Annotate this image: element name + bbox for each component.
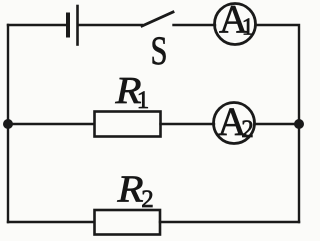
- wire A1 to top-right corner and right side down: [256, 25, 300, 222]
- wire middle row: left node to resistor R1: [8, 123, 94, 125]
- svg-text:R: R: [116, 169, 143, 211]
- svg-text:2: 2: [141, 186, 154, 213]
- wire R1 to ammeter A2: [161, 123, 215, 125]
- label A2 (ammeter A2): [218, 99, 254, 144]
- label R2 (resistor R2): [116, 169, 153, 214]
- wire battery to switch: [79, 24, 142, 26]
- node junction left: [3, 119, 13, 129]
- battery B (cell): [68, 6, 78, 45]
- resistor R1 box: [95, 112, 161, 137]
- resistor R2 box: [95, 210, 161, 235]
- svg-text:1: 1: [137, 87, 150, 114]
- ammeter A2 circle: [214, 103, 255, 144]
- node junction right: [294, 119, 304, 129]
- svg-text:1: 1: [242, 15, 254, 41]
- ammeter A1 circle: [215, 4, 256, 45]
- svg-text:S: S: [151, 28, 168, 73]
- wire left side vertical: [7, 25, 9, 222]
- wire A2 to right node: [255, 123, 300, 125]
- wire R2 to bottom-right corner: [160, 221, 299, 223]
- label R1 (resistor R1): [114, 70, 149, 114]
- wire switch to ammeter A1: [174, 24, 216, 26]
- wire bottom: left corner to resistor R2: [8, 221, 94, 223]
- switch S blade: [142, 12, 173, 26]
- label A1 (ammeter A1): [219, 0, 254, 42]
- wire top-left: left corner to battery: [8, 24, 66, 26]
- svg-text:2: 2: [241, 116, 254, 143]
